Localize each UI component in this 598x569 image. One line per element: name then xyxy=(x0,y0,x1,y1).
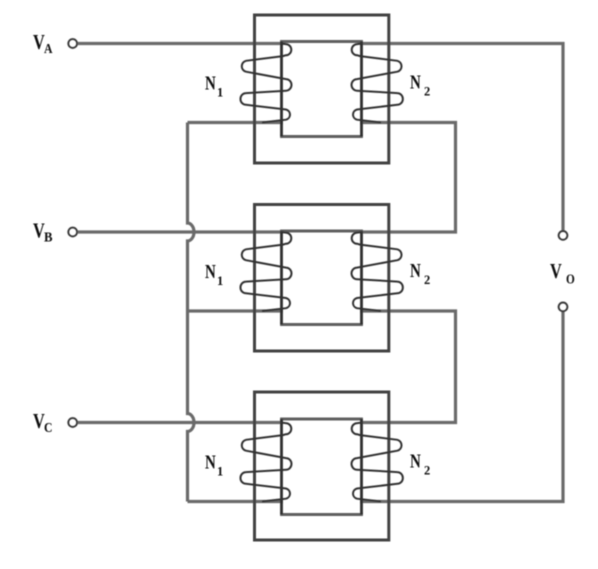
svg-text:2: 2 xyxy=(424,464,430,478)
terminal VC circle xyxy=(68,418,77,427)
terminal Vo- circle xyxy=(559,303,568,312)
svg-text:N: N xyxy=(205,261,216,283)
svg-text:N: N xyxy=(205,452,216,474)
terminal VA circle xyxy=(68,39,77,48)
svg-text:V: V xyxy=(550,259,562,283)
transformer T1 secondary winding N2 xyxy=(352,44,403,123)
wire T3 primary bottom to bus xyxy=(188,500,284,503)
wire VB to transformer T2 primary xyxy=(78,230,283,233)
wire T1 secondary bottom to T2 secondary top xyxy=(360,123,456,233)
svg-text:2: 2 xyxy=(424,85,430,99)
terminal VB circle xyxy=(68,228,77,237)
svg-text:N: N xyxy=(410,72,421,94)
svg-text:1: 1 xyxy=(217,86,223,100)
wire: primary common bus (hops over VB and VC wires) xyxy=(188,123,195,502)
svg-text:O: O xyxy=(566,272,575,287)
wire T1 secondary top to Vo+ bus xyxy=(360,44,563,231)
transformer T2 core outer rectangle xyxy=(255,205,389,352)
transformer T1 primary winding N1 xyxy=(240,44,291,123)
svg-text:1: 1 xyxy=(217,465,223,479)
wire T2 primary bottom to bus xyxy=(188,309,284,312)
svg-text:B: B xyxy=(44,230,53,245)
transformer T2 core inner window xyxy=(280,231,363,325)
svg-text:2: 2 xyxy=(424,273,430,287)
transformer T2 secondary winding N2 xyxy=(352,232,403,311)
wire T1 primary bottom to bus xyxy=(188,121,284,124)
transformer T3 secondary winding N2 xyxy=(352,423,403,502)
svg-text:1: 1 xyxy=(217,274,223,288)
transformer T3 core inner window xyxy=(280,419,363,515)
transformer T3 primary winding N1 xyxy=(240,423,291,502)
wire VC to transformer T3 primary xyxy=(78,421,283,424)
svg-text:A: A xyxy=(44,41,53,56)
svg-text:N: N xyxy=(205,73,216,95)
svg-text:N: N xyxy=(410,260,421,282)
transformer T2 primary winding N1 xyxy=(240,232,291,311)
terminal Vo+ circle xyxy=(559,231,568,240)
svg-text:C: C xyxy=(44,420,53,435)
transformer T1 core inner window xyxy=(280,42,363,137)
svg-text:N: N xyxy=(410,451,421,473)
transformer T3 core outer rectangle xyxy=(255,392,389,540)
wire T3 secondary bottom to Vo- bus xyxy=(360,312,563,502)
wire VA to transformer T1 primary xyxy=(78,42,283,45)
wire T2 secondary bottom to T3 secondary top xyxy=(360,311,456,423)
transformer T1 core outer rectangle xyxy=(255,15,389,163)
